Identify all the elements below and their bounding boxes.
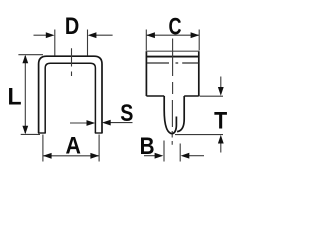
- side view horizontal dash-dot centerline: [147, 62, 198, 64]
- side view vertical centerline: [171, 39, 173, 145]
- dimension T label: [214, 106, 227, 133]
- dimension T up arrow: [220, 144, 222, 153]
- dimension D left extension line: [54, 30, 56, 56]
- clip front view U-body inner outline: [45, 63, 95, 133]
- dimension S label: [120, 99, 133, 126]
- dimension C label: [169, 14, 182, 40]
- side view tongue right wall: [177, 96, 184, 132]
- svg-text:L: L: [7, 83, 21, 110]
- dimension S left arrow: [70, 122, 88, 124]
- dimension D label: [65, 12, 79, 39]
- dimension A left extension line: [42, 135, 44, 162]
- dimension L label: [7, 83, 21, 110]
- side view tongue left wall and rounded tip: [164, 96, 176, 134]
- dimension L bottom extension line: [21, 133, 40, 135]
- left leg bottom cap: [38, 132, 46, 134]
- dimension T upper extension line: [200, 95, 224, 97]
- svg-text:T: T: [214, 106, 227, 133]
- clip front view U-body outer outline: [39, 56, 102, 133]
- side view inner top fold line: [146, 56, 198, 58]
- dimension B label: [140, 133, 155, 160]
- dimension T down arrow: [220, 77, 222, 88]
- dimension B left extension line: [163, 141, 165, 162]
- dimension A line: [43, 155, 99, 157]
- dimension B right extension line: [179, 144, 181, 162]
- right leg bottom cap: [95, 132, 103, 134]
- dimension L bottom arrowhead: [22, 126, 28, 135]
- dimension C left arrowhead: [146, 32, 155, 38]
- dimension A right arrowhead: [90, 153, 99, 159]
- dimension B right arrow: [189, 155, 204, 157]
- svg-text:D: D: [65, 12, 79, 39]
- svg-text:C: C: [169, 14, 182, 40]
- dimension C right extension line: [198, 30, 200, 51]
- dimension T lower extension line: [175, 134, 223, 136]
- dimension L line: [24, 56, 26, 133]
- dimension D right extension line: [87, 30, 89, 56]
- dimension S right arrow: [110, 122, 133, 124]
- side view body bottom edges: [146, 95, 198, 97]
- svg-text:A: A: [65, 131, 80, 158]
- side view body top edge: [146, 50, 200, 52]
- side view body rectangle: [146, 51, 198, 96]
- dimension L top arrowhead: [22, 55, 28, 64]
- dimension A left arrowhead: [43, 153, 52, 159]
- dimension L top extension line: [18, 54, 43, 56]
- dimension A right extension line: [98, 135, 100, 162]
- dimension C right arrowhead: [191, 32, 200, 38]
- dimension C left extension line: [145, 30, 147, 51]
- dimension A label: [65, 131, 80, 158]
- dimension D left arrow: [34, 34, 47, 36]
- dimension D right arrow: [96, 34, 113, 36]
- front view centerline: [71, 48, 73, 76]
- dimension B left arrow: [144, 155, 155, 157]
- dimension C line: [146, 34, 199, 36]
